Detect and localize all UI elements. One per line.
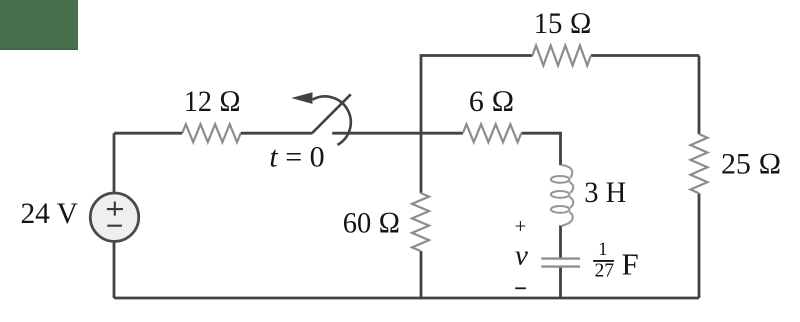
svg-text:27: 27 xyxy=(595,261,615,282)
wire: main horizontal left (source top to switch pivot) xyxy=(113,133,116,298)
svg-text:v: v xyxy=(515,240,528,272)
wire: main horizontal right of switch xyxy=(332,132,463,135)
svg-text:60 Ω: 60 Ω xyxy=(343,207,401,240)
label fraction bar xyxy=(593,260,614,262)
svg-text:1: 1 xyxy=(598,240,607,260)
voltage source plus sign xyxy=(107,202,123,216)
svg-text:t = 0: t = 0 xyxy=(269,141,324,174)
resistor R 6ohm xyxy=(463,124,521,142)
wire: 6ohm to inductor corner xyxy=(521,133,560,165)
green block bottom edge xyxy=(0,48,78,50)
voltage source VS circle xyxy=(90,193,138,241)
resistor R 15ohm xyxy=(532,46,590,66)
svg-text:25 Ω: 25 Ω xyxy=(721,148,782,181)
voltage source minus sign xyxy=(107,225,122,227)
svg-text:+: + xyxy=(514,214,526,238)
svg-text:F: F xyxy=(622,246,639,281)
green corner block xyxy=(0,0,78,50)
wire: inductor bottom to capacitor top plate xyxy=(559,226,562,259)
svg-text:6 Ω: 6 Ω xyxy=(469,85,515,118)
svg-text:15 Ω: 15 Ω xyxy=(534,7,592,40)
label minus polarity xyxy=(515,287,526,289)
wire: right vertical top segment xyxy=(698,56,701,135)
resistor R 60ohm vertical xyxy=(412,193,429,251)
svg-text:12 Ω: 12 Ω xyxy=(184,85,241,118)
wire: bottom rail xyxy=(114,297,699,300)
switch blade xyxy=(312,94,351,133)
inductor L 3H coil loops xyxy=(551,165,573,226)
wire: stub left of 12ohm xyxy=(114,132,312,135)
switch arrowhead xyxy=(291,92,312,104)
wire: top rail with corners xyxy=(421,56,699,134)
capacitor C plates xyxy=(541,259,580,267)
switch arc xyxy=(313,96,351,144)
wire: capacitor bottom plate to bottom rail xyxy=(559,267,562,298)
wire: mid vertical to 60 ohm and bottom xyxy=(420,133,423,298)
resistor R 12ohm xyxy=(182,124,240,142)
wire: right vertical bottom segment xyxy=(698,194,701,299)
svg-text:3 H: 3 H xyxy=(584,176,626,209)
resistor R 25ohm vertical xyxy=(691,134,708,193)
svg-text:24 V: 24 V xyxy=(20,197,78,230)
